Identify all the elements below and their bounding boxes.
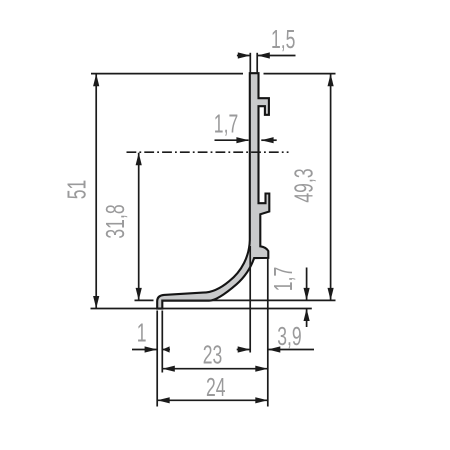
wire: extension line x=162 lip right — [161, 311, 163, 373]
wire: extension line x=268 foot right — [267, 259, 269, 407]
wire: 1,5 extension right — [256, 53, 258, 73]
svg-text:3,9: 3,9 — [277, 322, 301, 351]
arrowhead 51 top — [93, 74, 99, 87]
svg-text:49,3: 49,3 — [289, 168, 318, 202]
wire: 1,7 lower dim shaft lower — [306, 309, 308, 327]
svg-text:1,5: 1,5 — [271, 24, 295, 53]
wire: dash-dot reference line — [127, 151, 289, 153]
arrowhead 31,8 top — [136, 153, 142, 166]
wire: 1,7 mid right shaft — [261, 139, 276, 141]
wire: dimension line 23 — [162, 368, 267, 370]
wire: extension line x=157 lip left — [156, 311, 158, 407]
svg-text:1,7: 1,7 — [214, 109, 238, 138]
arrowhead 3,9 left — [238, 346, 251, 352]
wire: extension line base bottom right — [162, 299, 336, 301]
svg-text:23: 23 — [203, 340, 223, 369]
arrowhead 1,7 mid right — [261, 137, 274, 143]
arrowhead 23 right — [255, 366, 267, 372]
wire: dim 1 left shaft — [132, 349, 157, 351]
wire: 1,5 left shaft — [237, 55, 250, 57]
arrowhead 1,7 lower up — [304, 309, 310, 322]
arrowhead 24 left — [157, 397, 170, 403]
svg-text:1: 1 — [137, 318, 147, 347]
wire: dimension line 51 — [95, 74, 97, 309]
wire: 1,5 extension left — [249, 53, 251, 73]
svg-text:24: 24 — [206, 373, 226, 402]
arrowhead 1,7 lower down — [304, 288, 310, 301]
arrowhead 31,8 bottom — [136, 288, 142, 301]
arrowhead 24 right — [255, 397, 267, 403]
arrowhead dim1 left — [145, 346, 158, 352]
arrowhead 23 left — [162, 366, 175, 372]
wire: wall-top extension line left — [91, 73, 243, 75]
wire: wall-top extension line right — [264, 73, 336, 75]
wire: dimension line 24 — [157, 399, 268, 401]
wire: extension line x=250 wall left — [249, 246, 251, 353]
arrowhead dim1 right — [162, 346, 169, 352]
wire: lip-bottom extension line — [91, 308, 312, 310]
svg-text:1,7: 1,7 — [269, 267, 298, 291]
wire: dimension line 31,8 — [138, 153, 140, 301]
arrowhead 1,7 mid left — [236, 137, 249, 143]
wire: 1,7 lower dim shaft upper — [306, 268, 308, 301]
arrowhead 49,3 top — [328, 74, 334, 87]
arrowhead 51 bottom — [93, 296, 99, 309]
arrowhead 3,9 right — [268, 346, 281, 352]
wire: dimension line 49,3 — [330, 74, 332, 301]
wire: dim 3,9 right shaft — [268, 349, 314, 351]
wire: 1,7 mid left shaft — [215, 139, 249, 141]
arrowhead 1,5 right — [257, 52, 270, 58]
wire: 1,5 right shaft — [257, 55, 295, 57]
arrowhead 1,5 left — [238, 52, 251, 58]
profile cross-section (L-shaped aluminium extrusion) — [157, 73, 269, 308]
svg-text:51: 51 — [62, 180, 91, 200]
svg-text:31,8: 31,8 — [101, 204, 130, 238]
wire: dim 1 right shaft — [163, 349, 170, 351]
arrowhead 49,3 bottom — [328, 288, 334, 301]
wire: dim 3,9 left shaft — [237, 349, 250, 351]
wire: extension line base bottom left of lip — [135, 299, 154, 301]
